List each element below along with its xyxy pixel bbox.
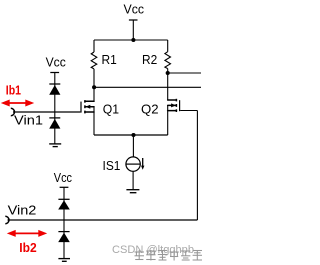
svg-text:Q1: Q1	[103, 102, 119, 117]
wire Vcc stem to rail	[132, 20, 134, 40]
current source IS1 circle	[126, 157, 140, 171]
transistor Q2 source stub	[168, 110, 177, 112]
wire Q2 source to tail	[167, 105, 169, 135]
annotation arrow Ib1 (double headed, red)	[1, 100, 34, 107]
power symbol Vcc bar (Vin2 clamp)	[60, 186, 69, 188]
input port marker Vin1	[11, 108, 15, 115]
transistor Q1 body stub	[86, 106, 94, 108]
current source IS1 bar	[126, 163, 140, 165]
wire R1 top lead	[93, 40, 95, 52]
wire Q1 drain	[93, 87, 95, 101]
wire output line from R1/Q1 drain to right edge	[94, 86, 201, 88]
svg-text:CSDN @ltgqhpb: CSDN @ltgqhpb	[112, 244, 194, 256]
diode D2 (gnd to Vin1) cathode bar	[49, 117, 60, 119]
svg-text:Vcc: Vcc	[124, 2, 145, 17]
diode D1 (Vin1 to Vcc) body	[49, 85, 60, 95]
diode D3 (Vin2 to Vcc) cathode bar	[58, 198, 69, 200]
diode D4 (gnd to Vin2) body	[58, 233, 70, 243]
node junction dot tail	[131, 133, 135, 137]
wire R2 top lead	[167, 40, 169, 52]
diode D4 (gnd to Vin2) cathode bar	[58, 231, 69, 233]
transistor Q1 source stub	[85, 111, 94, 113]
wire differential pair tail rail	[94, 134, 168, 136]
transistor Q2 body arrow	[171, 103, 176, 107]
svg-text:Ib1: Ib1	[6, 82, 21, 97]
diode D1 (Vin1 to Vcc) cathode bar	[49, 83, 60, 85]
wire Q2 drain	[167, 73, 169, 100]
wire tail to IS1	[132, 135, 134, 157]
input port marker Vin2	[5, 216, 9, 223]
ground (Vin1 clamp)	[49, 144, 61, 147]
wire IS1 to ground	[132, 171, 134, 189]
wire Q1 source to tail	[93, 107, 95, 135]
ground (Vin2 clamp)	[58, 259, 70, 262]
diode D3 (Vin2 to Vcc) body	[58, 200, 70, 209]
power symbol Vcc (top bar)	[129, 19, 138, 21]
transistor Q1 gate bar	[80, 102, 82, 113]
wire R1 bottom lead	[93, 69, 95, 87]
ground (IS1)	[126, 190, 139, 193]
svg-text:Q2: Q2	[141, 102, 159, 117]
diode D2 (gnd to Vin1) body	[49, 119, 60, 129]
transistor Q2 drain stub	[168, 99, 177, 101]
wire R2 bottom lead	[167, 69, 169, 73]
node junction dot on top rail	[131, 38, 135, 42]
svg-text:Vin2: Vin2	[8, 203, 37, 218]
svg-text:Vin1: Vin1	[14, 113, 43, 128]
node junction dot R2 / Q2 drain	[166, 71, 170, 75]
resistor R1	[91, 52, 97, 69]
transistor Q1 channel segments	[84, 100, 86, 113]
node junction dot R1 / Q1 drain	[92, 85, 96, 89]
wire Vin1 clamp column	[54, 73, 56, 144]
transistor Q2 body stub	[168, 104, 176, 106]
wire right vertical (Q2 gate down to Vin2)	[196, 111, 198, 221]
transistor Q1 drain stub	[85, 100, 94, 102]
transistor Q2 channel segments	[175, 99, 177, 112]
transistor Q2 gate bar	[179, 100, 181, 111]
wire Q2 gate to right side	[180, 110, 197, 112]
wire output line from R2/Q2 drain to right edge	[168, 72, 201, 74]
transistor Q1 body arrow	[85, 105, 90, 109]
annotation arrow Ib2 (double headed, red)	[7, 230, 47, 237]
watermark CJK glyph blocks	[135, 250, 203, 261]
wire Vin2 input line	[8, 219, 198, 221]
wire Vin1 input line to Q1 gate	[13, 111, 80, 113]
svg-text:R2: R2	[142, 52, 157, 67]
svg-text:IS1: IS1	[103, 158, 121, 173]
svg-text:R1: R1	[102, 52, 117, 67]
svg-text:Vcc: Vcc	[54, 170, 73, 185]
svg-text:Ib2: Ib2	[19, 240, 36, 255]
wire Vin2 clamp column	[63, 187, 65, 258]
svg-text:Vcc: Vcc	[46, 55, 67, 70]
current source IS1 direction arrow	[142, 158, 144, 166]
power symbol Vcc bar (Vin1 clamp)	[50, 72, 59, 74]
resistor R2	[165, 52, 171, 69]
wire top rail	[94, 39, 168, 41]
